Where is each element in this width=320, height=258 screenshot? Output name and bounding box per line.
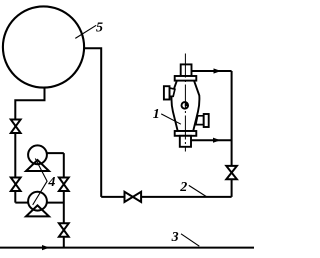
wire: tank outlet to line 2 (right side of tank, down) bbox=[85, 48, 102, 197]
svg-text:4: 4 bbox=[47, 175, 55, 190]
valve V2 (left line, lower) bbox=[11, 178, 21, 192]
valve V1 (left line, upper) bbox=[11, 120, 21, 134]
arrow on middle line bbox=[213, 138, 221, 143]
valve V5 (right riser) bbox=[226, 166, 237, 179]
wire: tank bottom stub bbox=[15, 87, 44, 203]
apparatus U1 bottom nozzle bbox=[180, 136, 191, 147]
valve V3 (right of pumps) bbox=[59, 178, 69, 192]
wire: apparatus bottom nozzle to riser bbox=[191, 139, 232, 141]
leader for label 4 (two segments) bbox=[33, 159, 47, 205]
valve V4 (above line 3) bbox=[59, 223, 69, 236]
leader for label 2 bbox=[189, 185, 207, 196]
wire: line 3 (bottom pipe) bbox=[0, 247, 254, 249]
apparatus U1 top nozzle bbox=[181, 64, 192, 76]
apparatus U1 body bbox=[171, 81, 199, 131]
svg-text:1: 1 bbox=[153, 107, 160, 122]
tank 5 bbox=[3, 6, 84, 87]
svg-text:5: 5 bbox=[96, 20, 103, 35]
wire: left line into pump P2 inlet bbox=[15, 202, 28, 204]
valve V6 (line 2, horizontal) bbox=[125, 192, 142, 202]
arrow on top line bbox=[214, 68, 222, 73]
leader for label 1 bbox=[161, 114, 181, 124]
wire: pump P1 outlet bbox=[47, 152, 64, 154]
arrow on line 3 bbox=[42, 245, 50, 250]
svg-text:2: 2 bbox=[179, 180, 187, 195]
apparatus U1 right nozzle flange bbox=[204, 114, 209, 127]
apparatus U1 right nozzle neck bbox=[196, 116, 204, 125]
svg-text:3: 3 bbox=[171, 230, 179, 245]
wire: apparatus top nozzle to riser bbox=[192, 70, 232, 72]
apparatus U1 centerline bbox=[184, 54, 186, 152]
wire: right vertical riser bbox=[231, 71, 233, 197]
leader for label 5 bbox=[75, 25, 96, 38]
apparatus U1 bottom flange bbox=[175, 131, 197, 136]
wire: pumps discharge vertical down to line 3 bbox=[63, 153, 65, 248]
pump 4b (lower) bbox=[26, 192, 49, 217]
wire: pump P2 outlet bbox=[47, 202, 64, 204]
pump 4a (upper) bbox=[26, 145, 49, 171]
leader for label 3 bbox=[181, 234, 199, 246]
apparatus U1 drive hub bbox=[182, 102, 189, 109]
apparatus U1 left nozzle neck bbox=[170, 88, 175, 96]
wire: line 2 horizontal bbox=[101, 196, 231, 198]
apparatus U1 top flange bbox=[175, 76, 197, 81]
apparatus U1 left nozzle flange bbox=[164, 86, 170, 99]
